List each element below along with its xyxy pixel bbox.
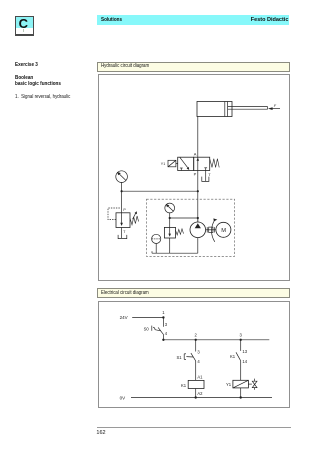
node coil at 0V: [195, 396, 197, 398]
switch S0 detent actuator: [152, 326, 161, 331]
node 2: [195, 339, 197, 341]
internal relief valve drain: [169, 238, 171, 253]
wire node2 to S1: [195, 340, 197, 352]
wire branch down to internal relief valve: [169, 218, 171, 227]
node solenoid at 0V: [240, 396, 242, 398]
force arrow F: [268, 107, 280, 110]
valve right position: P to A path with arrow: [197, 157, 200, 170]
cylinder piston rod: [228, 107, 268, 110]
tank symbol under relief valve: [118, 235, 127, 239]
branch rail: [163, 339, 269, 341]
svg-text:T: T: [123, 230, 126, 234]
hydraulic diagram frame: [98, 74, 290, 281]
tank return line: [152, 251, 198, 253]
wire branch to pressure gauge: [122, 190, 198, 192]
internal relief valve flow arrow: [168, 227, 171, 236]
electrical section header: [97, 288, 290, 298]
pushbutton S1 actuator: [184, 354, 193, 360]
drive coupling shaft: [206, 227, 216, 232]
svg-text:A2: A2: [197, 391, 203, 396]
valve right position: blocked T: [204, 168, 207, 171]
power unit enclosure (dashed): [147, 199, 235, 256]
relay contact K1: [236, 352, 241, 361]
node on pump pressure line: [197, 217, 199, 219]
node at power unit branch: [169, 217, 171, 219]
svg-text:F: F: [274, 104, 277, 108]
valve indicator symbol: [248, 379, 257, 390]
svg-text:4: 4: [165, 331, 168, 336]
wire S0 to branch rail: [162, 334, 164, 339]
pump to branch wire: [197, 218, 199, 222]
svg-text:P: P: [194, 171, 197, 176]
svg-text:13: 13: [242, 349, 247, 354]
suction filter 0Z2: [152, 234, 161, 253]
svg-text:P: P: [123, 208, 126, 212]
hydraulic section header: [97, 62, 290, 72]
svg-text:3: 3: [240, 333, 243, 338]
svg-text:S0: S0: [144, 327, 150, 332]
valve return spring: [210, 159, 220, 168]
svg-text:0V: 0V: [120, 395, 126, 400]
cylinder 1A (single acting) body: [197, 102, 232, 117]
switch S0 contact: [158, 327, 163, 334]
node 1: [162, 316, 164, 318]
hydraulic pump 0P1: [190, 222, 206, 238]
valve left position: blocked P: [180, 168, 183, 171]
svg-text:A: A: [194, 152, 197, 157]
wire P line pump to valve: [197, 171, 199, 223]
relief valve pilot line (dashed): [108, 208, 120, 220]
relief valve flow path arrow: [120, 213, 123, 226]
sidebar: exercise title: [15, 62, 38, 68]
node at gauge branch left: [121, 190, 123, 192]
0V rail: [131, 397, 272, 399]
tank symbol under valve: [202, 177, 209, 182]
pressure relief valve 1V2 body: [116, 213, 130, 228]
footer rule: [97, 427, 292, 428]
node 3: [240, 339, 242, 341]
solenoid Y1: [168, 160, 178, 167]
svg-text:4: 4: [197, 359, 200, 364]
valve tank drain line: [205, 171, 207, 182]
wire node1 to S0: [162, 318, 164, 327]
pump suction line: [197, 238, 199, 254]
svg-text:K1: K1: [230, 354, 236, 359]
wire coil K1 to 0V rail: [195, 389, 197, 398]
C tab logo box: [15, 16, 34, 36]
valve 1V (3/2-way solenoid valve) body: [178, 157, 210, 170]
relay coil K1: [188, 380, 204, 388]
valve left position: A to T path: [180, 157, 189, 170]
24V supply rail: [132, 317, 163, 319]
wire gauge branch down to relief valve: [121, 191, 123, 213]
wire solenoid Y1 to 0V rail: [240, 388, 242, 398]
wire S1 to coil K1: [195, 361, 197, 381]
node at S0 branch: [162, 339, 164, 341]
svg-text:3: 3: [165, 322, 168, 327]
solenoid coil Y1: [233, 380, 249, 388]
svg-text:14: 14: [242, 359, 247, 364]
svg-text:K1: K1: [181, 383, 187, 388]
internal pressure relief valve 0V body: [164, 227, 175, 238]
svg-text:Y1: Y1: [226, 382, 232, 387]
cylinder piston: [225, 102, 228, 117]
wire contact K1 to solenoid Y1: [240, 361, 242, 381]
cyan banner: [97, 15, 289, 25]
svg-text:2: 2: [195, 333, 198, 338]
svg-text:T: T: [208, 172, 211, 177]
pushbutton S1 contact: [191, 353, 196, 361]
page number 162: [96, 430, 105, 436]
svg-text:3: 3: [197, 349, 200, 354]
wire node3 to contact K1: [240, 340, 242, 351]
svg-text:24V: 24V: [120, 315, 128, 320]
electric motor 0M1: [216, 222, 231, 237]
svg-text:A1: A1: [197, 375, 203, 380]
svg-text:M: M: [221, 228, 226, 234]
svg-text:Y1: Y1: [161, 162, 165, 166]
relief valve spring: [130, 216, 139, 225]
svg-text:S1: S1: [177, 355, 183, 360]
sidebar: item 1: [15, 94, 70, 100]
node on P line (gauge branch): [197, 190, 199, 192]
electrical diagram frame: [98, 301, 290, 408]
relief valve adjustment arrow: [133, 211, 137, 219]
svg-text:1: 1: [162, 310, 165, 315]
rotation direction arc: [212, 218, 218, 241]
pressure gauge 1Z1: [116, 171, 128, 191]
wire cylinder to valve port A: [197, 117, 199, 158]
internal relief valve spring: [176, 229, 184, 235]
sidebar: topic lines: [15, 75, 33, 81]
wire gauge / relief branch in power unit: [170, 217, 198, 219]
pressure gauge 0Z1 (power unit): [165, 203, 175, 218]
relief valve drain line: [121, 228, 123, 239]
